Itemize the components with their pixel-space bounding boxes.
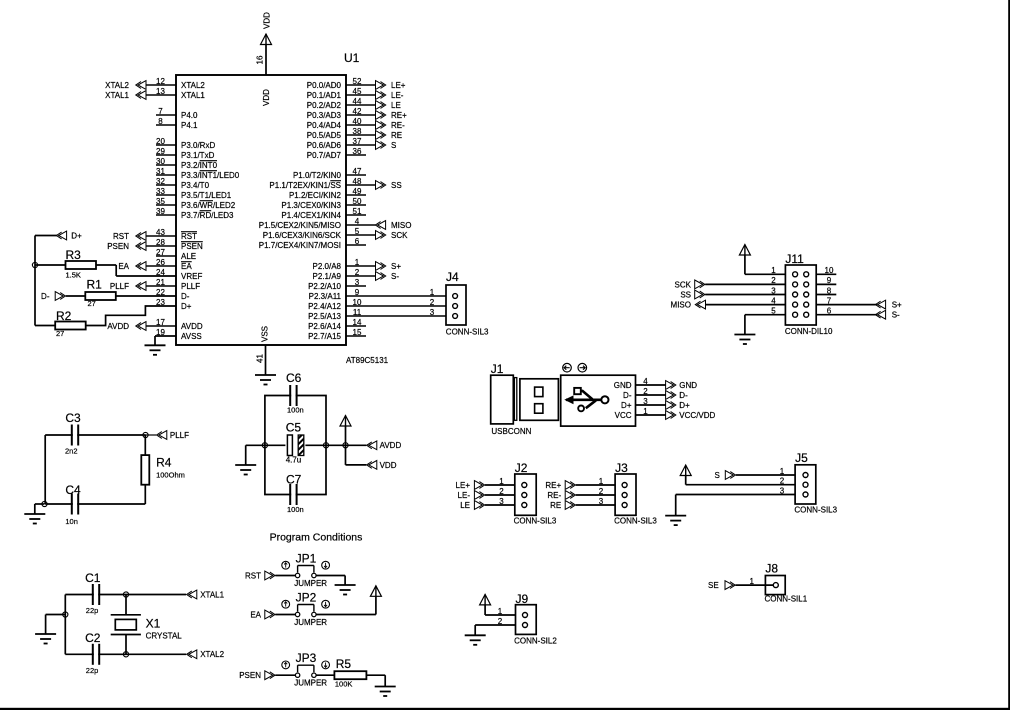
svg-text:EA: EA [118, 262, 129, 271]
svg-text:CRYSTAL: CRYSTAL [146, 632, 183, 641]
power VDD at J11 [739, 245, 750, 256]
pin 1 VCC of J1 [615, 407, 666, 420]
port XTAL1 at crystal [187, 590, 225, 599]
svg-text:39: 39 [156, 207, 165, 216]
svg-text:P3.3/INT1/LED0: P3.3/INT1/LED0 [181, 171, 240, 180]
port S at pin 37 [376, 141, 397, 150]
pin 38 P0.5/AD5 [307, 127, 376, 140]
svg-text:13: 13 [156, 87, 165, 96]
port EA at pin 26 [118, 262, 146, 271]
wire VDD to pin 16 [265, 45, 267, 76]
port S- at J11 [875, 310, 900, 319]
port EA at JP2 [250, 610, 275, 619]
power VDD at J5 [680, 465, 691, 476]
pin 40 P0.4/AD4 [307, 117, 376, 130]
svg-text:3: 3 [780, 486, 785, 495]
svg-text:S-: S- [892, 311, 900, 320]
pin 42 P0.3/AD3 [307, 107, 376, 120]
svg-text:1: 1 [430, 288, 435, 297]
connector J9 CONN-SIL2 [514, 592, 557, 646]
wire RE+ to J3 pin 1 [576, 477, 615, 486]
jumper JP2 [282, 591, 330, 627]
svg-text:P0.3/AD3: P0.3/AD3 [307, 111, 342, 120]
svg-text:XTAL1: XTAL1 [200, 590, 224, 599]
svg-text:VCC: VCC [615, 411, 632, 420]
svg-text:9: 9 [355, 288, 360, 297]
svg-text:33: 33 [156, 187, 165, 196]
pin 33 P3.5/T1/LED1 [156, 187, 232, 200]
pin 11 P2.5/A13 [308, 308, 446, 321]
wire J9 pin 1 to VDD [485, 605, 515, 616]
wire to ground crystal [46, 615, 66, 635]
svg-text:38: 38 [353, 127, 362, 136]
svg-text:48: 48 [353, 177, 362, 186]
svg-text:2: 2 [643, 387, 648, 396]
svg-text:36: 36 [353, 147, 362, 156]
svg-text:LE-: LE- [391, 91, 404, 100]
svg-text:PSEN: PSEN [181, 242, 203, 251]
pin 23 D+ [156, 298, 192, 311]
junction node D+/R3 [32, 262, 37, 267]
svg-text:JP2: JP2 [296, 591, 317, 605]
port RST at JP1 [245, 571, 275, 580]
svg-text:SS: SS [680, 290, 691, 299]
pin 13 XTAL1 [146, 87, 205, 100]
svg-text:VREF: VREF [181, 272, 202, 281]
connector J3 CONN-SIL3 [614, 461, 657, 526]
svg-text:PSEN: PSEN [239, 671, 261, 680]
svg-text:5: 5 [355, 227, 360, 236]
pin VSS name [260, 326, 269, 342]
svg-text:2: 2 [780, 477, 785, 486]
wire JP2 to VDD [316, 596, 376, 614]
svg-text:17: 17 [156, 318, 165, 327]
svg-text:D-: D- [679, 391, 688, 400]
resistor R5 100K [334, 657, 366, 688]
svg-text:2: 2 [498, 617, 503, 626]
svg-text:VCC/VDD: VCC/VDD [679, 411, 715, 420]
port LE+ at J2 [456, 481, 485, 490]
pin 49 P1.2/ECI/KIN2 [289, 187, 366, 200]
capacitor C1 22p [85, 571, 101, 615]
svg-text:44: 44 [353, 97, 362, 106]
wire PLLF top [45, 434, 145, 436]
svg-text:RE: RE [391, 131, 402, 140]
port XTAL2 at pin 12 [105, 81, 146, 90]
svg-text:3: 3 [430, 308, 435, 317]
svg-text:D+: D+ [71, 231, 82, 240]
wire RST to JP1 [275, 575, 295, 577]
svg-text:PLLF: PLLF [181, 282, 200, 291]
wire D- to R1 and R1 to pin 22 [66, 295, 176, 297]
svg-text:P3.0/RxD: P3.0/RxD [181, 141, 215, 150]
svg-text:P2.2/A10: P2.2/A10 [308, 282, 341, 291]
svg-text:RE-: RE- [547, 491, 561, 500]
pin 47 P1.0/T2/KIN0 [293, 167, 366, 180]
svg-text:2: 2 [355, 268, 360, 277]
capacitor C6 100n [286, 371, 304, 415]
wire cap loop rectangle [265, 396, 326, 495]
port XTAL1 at pin 13 [105, 91, 146, 100]
svg-text:P1.6/CEX3/KIN6/SCK: P1.6/CEX3/KIN6/SCK [263, 231, 342, 240]
svg-text:40: 40 [353, 117, 362, 126]
pin 19 AVSS [156, 328, 202, 341]
wire SS [705, 286, 785, 295]
junction node gnd tap [63, 612, 68, 617]
svg-text:27: 27 [156, 248, 165, 257]
IC U1 AT89C5131 microcontroller [176, 51, 389, 365]
svg-text:R4: R4 [156, 456, 172, 470]
pin 45 P0.1/AD1 [307, 87, 376, 100]
svg-text:2: 2 [771, 276, 776, 285]
port SCK at pin 5 [376, 231, 409, 240]
svg-text:J1: J1 [491, 362, 504, 376]
port AVDD [367, 441, 402, 450]
capacitor C7 100n [286, 473, 304, 515]
svg-text:PLLF: PLLF [170, 431, 189, 440]
pin 10 stub of J11 [816, 266, 836, 275]
port SS to J11 pin 3 [680, 290, 705, 299]
svg-text:P3.1/TxD: P3.1/TxD [181, 151, 215, 160]
pin 20 P3.0/RxD [156, 137, 215, 150]
wire R4 vertical [144, 435, 146, 504]
svg-text:10: 10 [825, 266, 834, 275]
port RE- at pin 40 [376, 121, 406, 130]
svg-text:P0.2/AD2: P0.2/AD2 [307, 101, 342, 110]
svg-text:LE-: LE- [458, 491, 471, 500]
port RE- at J3 [547, 491, 575, 500]
svg-text:22p: 22p [86, 606, 99, 615]
wire SCK [705, 276, 785, 285]
svg-text:P1.7/CEX4/KIN7/MOSI: P1.7/CEX4/KIN7/MOSI [259, 241, 341, 250]
svg-text:J9: J9 [516, 592, 529, 606]
pin 12 XTAL2 [146, 77, 205, 90]
svg-text:AVDD: AVDD [181, 322, 203, 331]
svg-text:P3.7/RD/LED3: P3.7/RD/LED3 [181, 211, 234, 220]
pin 29 P3.1/TxD [156, 147, 215, 160]
port SCK to J11 pin 2 [675, 280, 705, 289]
pin 15 P2.7/A15 [308, 328, 366, 341]
svg-text:RST: RST [181, 232, 197, 241]
svg-text:EA: EA [250, 610, 261, 619]
svg-text:P0.1/AD1: P0.1/AD1 [307, 91, 342, 100]
port SS at pin 48 [376, 181, 402, 190]
wire C5 row left to ground [246, 445, 265, 465]
svg-text:X1: X1 [146, 617, 161, 631]
wire AVSS pin 19 to ground [155, 336, 176, 345]
svg-text:100Ohm: 100Ohm [156, 471, 185, 480]
svg-text:J5: J5 [795, 451, 808, 465]
port RE at J3 [550, 501, 575, 510]
svg-text:XTAL2: XTAL2 [105, 81, 129, 90]
port PLLF at pin 21 [110, 282, 146, 291]
svg-text:6: 6 [355, 237, 360, 246]
svg-text:14: 14 [353, 318, 362, 327]
svg-text:XTAL2: XTAL2 [200, 650, 224, 659]
ground at crystal [35, 634, 56, 644]
svg-text:2: 2 [430, 298, 435, 307]
svg-text:3: 3 [499, 497, 504, 506]
power VDD top [261, 12, 272, 45]
svg-text:1: 1 [643, 407, 648, 416]
pin 2 P2.1/A9 [313, 268, 376, 281]
svg-text:5: 5 [771, 307, 776, 316]
svg-text:100n: 100n [287, 406, 304, 415]
ground at AVSS [145, 345, 166, 355]
svg-text:SS: SS [391, 181, 402, 190]
svg-text:D-: D- [41, 292, 50, 301]
svg-text:LE+: LE+ [456, 481, 471, 490]
svg-text:42: 42 [353, 107, 362, 116]
pin 17 AVDD [146, 318, 203, 331]
svg-text:7: 7 [827, 296, 832, 305]
svg-text:100n: 100n [287, 505, 304, 514]
wire J9 pin 2 to ground [475, 617, 515, 636]
jumper JP1 [282, 552, 330, 588]
svg-text:RST: RST [113, 232, 129, 241]
pin 50 P1.3/CEX0/KIN3 [281, 197, 366, 210]
USB polarity arrows [563, 363, 587, 372]
svg-text:27: 27 [88, 299, 96, 308]
ground at VSS [255, 375, 276, 385]
pin 30 P3.2/INT0 [156, 157, 218, 170]
svg-text:P4.0: P4.0 [181, 111, 198, 120]
svg-text:22p: 22p [86, 666, 99, 675]
junction node PLLF [143, 432, 148, 437]
pin 27 ALE [156, 248, 196, 261]
pin 10 P2.4/A12 [308, 298, 446, 311]
svg-text:P0.0/AD0: P0.0/AD0 [307, 81, 342, 90]
svg-text:52: 52 [353, 77, 362, 86]
pin 32 P3.4/T0 [156, 177, 210, 190]
svg-text:LE+: LE+ [391, 81, 406, 90]
svg-text:J3: J3 [615, 461, 628, 475]
svg-text:2n2: 2n2 [65, 447, 78, 456]
port PSEN at pin 28 [107, 242, 146, 251]
svg-text:P1.4/CEX1/KIN4: P1.4/CEX1/KIN4 [281, 211, 341, 220]
svg-text:XTAL2: XTAL2 [181, 81, 205, 90]
svg-text:SCK: SCK [675, 280, 692, 289]
svg-text:29: 29 [156, 147, 165, 156]
svg-text:45: 45 [353, 87, 362, 96]
svg-text:2: 2 [499, 487, 504, 496]
wire MISO [706, 296, 786, 305]
svg-text:AVDD: AVDD [380, 441, 402, 450]
svg-text:S: S [715, 471, 720, 480]
port S+ at J11 [875, 300, 902, 309]
wire PSEN to JP3 [275, 674, 295, 676]
svg-text:VSS: VSS [260, 326, 269, 342]
pin 5 P1.6/CEX3/KIN6/SCK [263, 227, 376, 240]
wire D+ vert to R2 left [35, 325, 55, 327]
port LE- at pin 45 [376, 91, 404, 100]
pin 36 P0.7/AD7 [307, 147, 366, 160]
svg-text:JUMPER: JUMPER [294, 579, 327, 588]
junction node right [323, 443, 328, 448]
junction node XTAL2/X1 [123, 652, 128, 657]
wire J11 pin 5 to ground [745, 307, 786, 335]
svg-text:PLLF: PLLF [110, 282, 129, 291]
svg-text:S+: S+ [892, 301, 902, 310]
pin 8 stub of J11 [816, 286, 836, 295]
port AVDD at pin 17 [107, 322, 146, 331]
svg-text:D+: D+ [181, 302, 192, 311]
svg-text:C7: C7 [286, 473, 302, 487]
svg-text:C5: C5 [286, 421, 302, 435]
pin 31 P3.3/INT1/LED0 [156, 167, 240, 180]
port PSEN at JP3 [239, 671, 275, 680]
svg-text:1.5K: 1.5K [66, 271, 81, 280]
pin 41 number [255, 354, 264, 363]
wire VSS pin 41 to ground [265, 345, 267, 375]
svg-text:P2.5/A13: P2.5/A13 [308, 312, 341, 321]
pin 43 RST [146, 228, 197, 241]
svg-text:C4: C4 [65, 483, 81, 497]
svg-text:P0.6/AD6: P0.6/AD6 [307, 141, 342, 150]
pin 4 P1.5/CEX2/KIN5/MISO [259, 217, 376, 230]
svg-text:1: 1 [599, 477, 604, 486]
wire R5 to ground [366, 675, 385, 686]
svg-text:P2.6/A14: P2.6/A14 [308, 322, 341, 331]
port S+ at pin 1 [376, 262, 402, 271]
port VDD [367, 461, 397, 470]
svg-text:37: 37 [353, 137, 362, 146]
port MISO to J11 pin 4 [671, 300, 706, 309]
wire JP3 to R5 [316, 674, 334, 676]
pin 37 P0.6/AD6 [307, 137, 376, 150]
wire RE- to J3 pin 2 [576, 487, 615, 496]
svg-text:3: 3 [355, 278, 360, 287]
resistor R3 1.5K [66, 248, 97, 280]
port RST at pin 43 [113, 232, 146, 241]
wire R3 to VREF pin 24 [35, 265, 176, 276]
svg-text:1: 1 [355, 258, 360, 267]
svg-text:CONN-SIL3: CONN-SIL3 [614, 517, 657, 526]
svg-text:51: 51 [353, 207, 362, 216]
svg-text:J8: J8 [765, 561, 778, 575]
pin 3 D+ of J1 [621, 397, 666, 410]
svg-text:D+: D+ [679, 401, 690, 410]
svg-text:P1.2/ECI/KIN2: P1.2/ECI/KIN2 [289, 191, 342, 200]
svg-text:50: 50 [353, 197, 362, 206]
svg-text:C6: C6 [286, 371, 302, 385]
pin 22 D- [156, 288, 190, 301]
wire J5 pin 2 to VDD [686, 476, 795, 486]
svg-text:9: 9 [827, 276, 832, 285]
connector J4 CONN-SIL3 [446, 270, 489, 337]
svg-text:S-: S- [391, 272, 399, 281]
port S at J5 [715, 471, 736, 480]
pin 28 PSEN [146, 238, 203, 251]
svg-text:3: 3 [771, 286, 776, 295]
svg-text:D+: D+ [621, 401, 632, 410]
power VDD at C5 block [340, 416, 351, 427]
svg-text:41: 41 [255, 354, 264, 363]
capacitor C3 2n2 [65, 411, 81, 456]
power VDD at JP2 [370, 586, 381, 597]
svg-text:1: 1 [780, 467, 785, 476]
port RE at pin 38 [376, 131, 403, 140]
svg-text:AT89C5131: AT89C5131 [346, 356, 389, 365]
connector J1 USBCONN [491, 362, 636, 436]
power VDD at J9 [480, 594, 491, 605]
ground at J9 [465, 635, 486, 645]
port MISO at pin 4 [375, 221, 411, 230]
pin 1 P2.0/A8 [313, 258, 376, 271]
pin 9 P2.3/A11 [309, 288, 446, 301]
pin 21 PLLF [146, 278, 200, 291]
port RE+ at J3 [545, 481, 575, 490]
svg-text:P3.5/T1/LED1: P3.5/T1/LED1 [181, 191, 232, 200]
wire pin 23 D+ to R2 [86, 306, 176, 326]
jumper JP3 [282, 651, 330, 687]
wire JP1 to ground [316, 576, 345, 586]
svg-text:S+: S+ [391, 262, 401, 271]
wire J11 pin 6 to S- [816, 307, 877, 316]
wire XTAL2 net [65, 595, 186, 655]
junction node AVDD branch [343, 443, 348, 448]
ground at J5 [665, 516, 686, 526]
junction node C4/gnd [42, 501, 47, 506]
port LE+ at pin 52 [376, 81, 406, 90]
svg-text:VDD: VDD [263, 12, 272, 29]
port LE at J2 [460, 501, 484, 510]
svg-text:P3.4/T0: P3.4/T0 [181, 181, 210, 190]
port GND at J1 [666, 381, 698, 390]
ground at PLL filter [24, 514, 45, 524]
svg-text:P2.4/A12: P2.4/A12 [308, 302, 341, 311]
svg-text:2: 2 [599, 487, 604, 496]
svg-text:47: 47 [353, 167, 362, 176]
svg-text:USBCONN: USBCONN [491, 427, 531, 436]
svg-text:J2: J2 [515, 461, 528, 475]
svg-text:GND: GND [679, 381, 697, 390]
svg-text:P1.5/CEX2/KIN5/MISO: P1.5/CEX2/KIN5/MISO [259, 221, 341, 230]
svg-text:S: S [391, 141, 396, 150]
svg-text:P0.5/AD5: P0.5/AD5 [307, 131, 342, 140]
svg-text:35: 35 [156, 197, 165, 206]
svg-text:RST: RST [245, 571, 261, 580]
resistor R2 27 [55, 309, 85, 338]
svg-text:1: 1 [771, 266, 776, 275]
pin 24 VREF [156, 268, 202, 281]
pin 52 P0.0/AD0 [307, 77, 376, 90]
svg-text:P2.3/A11: P2.3/A11 [309, 292, 342, 301]
svg-text:12: 12 [156, 77, 165, 86]
svg-text:P3.2/INT0: P3.2/INT0 [181, 161, 218, 170]
svg-text:1: 1 [749, 577, 754, 586]
svg-text:4: 4 [355, 217, 360, 226]
svg-text:C2: C2 [85, 631, 101, 645]
svg-text:D-: D- [623, 391, 632, 400]
svg-text:JUMPER: JUMPER [294, 679, 327, 688]
port SE at J8 [708, 581, 735, 590]
ground at J11 [734, 335, 755, 345]
wire RE to J3 pin 3 [576, 497, 615, 506]
pin 7 P4.0 [156, 107, 198, 120]
svg-text:RE+: RE+ [545, 481, 561, 490]
crystal X1 [111, 595, 183, 655]
pin 16 number [255, 55, 264, 64]
wire EA to JP2 [275, 614, 295, 616]
pin 8 P4.1 [156, 117, 198, 130]
capacitor C5 4.7u polarized [285, 421, 305, 465]
svg-text:C3: C3 [65, 411, 81, 425]
wire to ground C3C4 [35, 504, 45, 514]
wire LE- to J2 pin 2 [485, 487, 515, 496]
svg-text:J11: J11 [785, 252, 804, 266]
svg-text:CONN-SIL1: CONN-SIL1 [765, 595, 808, 604]
